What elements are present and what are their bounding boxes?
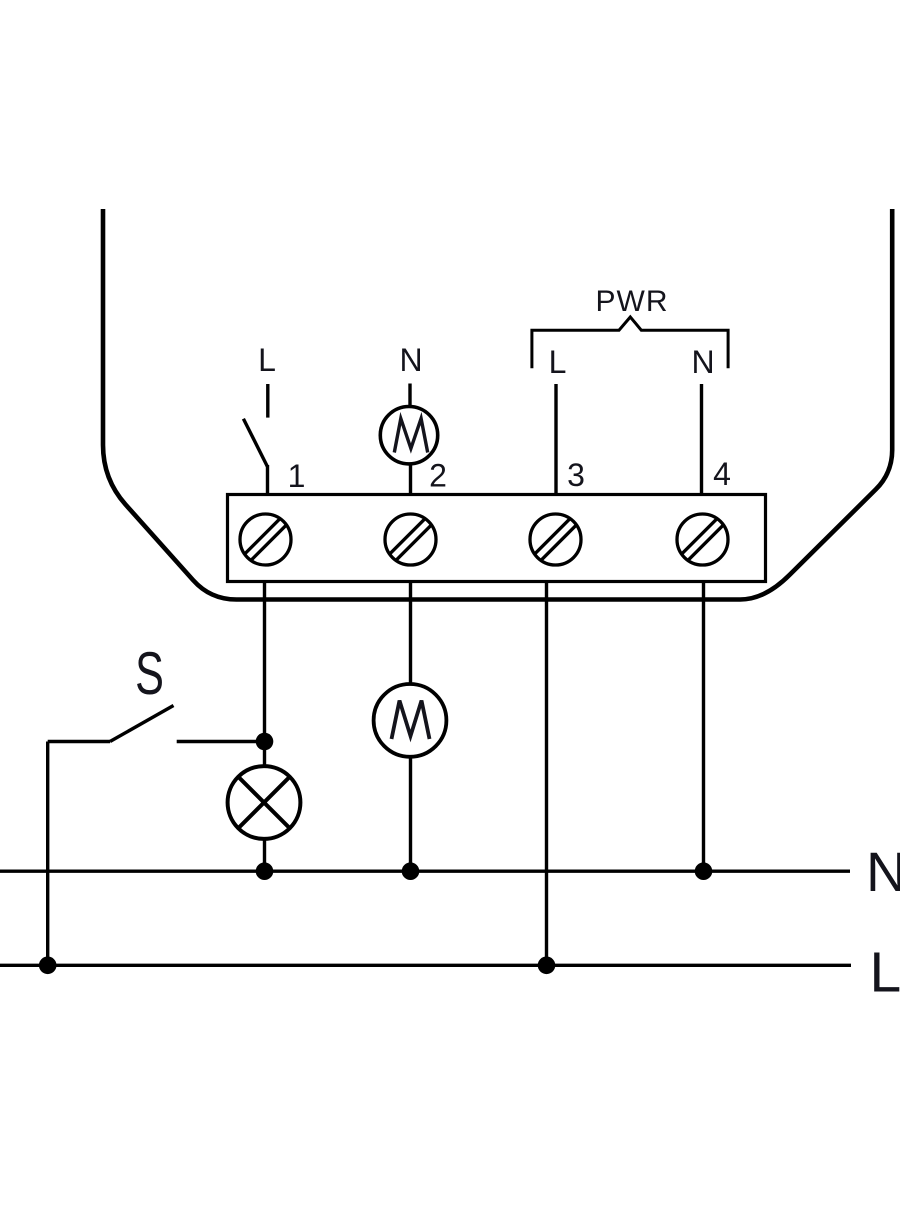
wire blade to terminal 1 <box>266 465 269 495</box>
switch contact stub from L <box>266 384 269 418</box>
terminal screw 4 <box>677 514 728 565</box>
svg-text:L: L <box>870 941 900 1005</box>
terminal screw 1 <box>240 514 291 565</box>
wire terminal 2 down to motor M2 <box>409 582 412 685</box>
svg-text:4: 4 <box>713 456 731 492</box>
motor M2 circle <box>374 684 447 757</box>
motor M1 circle <box>380 407 437 464</box>
motor M2 letter M <box>392 701 430 740</box>
terminal screw 2 <box>385 514 436 565</box>
wire lamp to N line <box>263 839 266 871</box>
switch S left lead <box>48 740 110 743</box>
svg-text:L: L <box>258 342 276 378</box>
wire terminal 1 down <box>263 582 266 743</box>
switch S blade <box>110 706 174 742</box>
device enclosure outline <box>103 209 892 600</box>
PWR bracket <box>532 317 728 368</box>
node wire 3 on L line <box>538 957 556 975</box>
node lamp on N line <box>256 862 274 880</box>
svg-text:N: N <box>399 342 422 378</box>
N bus line <box>0 870 850 873</box>
svg-text:S: S <box>135 641 164 708</box>
wire N to motor M1 <box>408 384 411 408</box>
wire N PWR to terminal 4 <box>700 384 703 495</box>
lamp circle <box>228 766 301 839</box>
terminal screw 3 <box>530 514 581 565</box>
wire L PWR to terminal 3 <box>554 384 557 495</box>
internal switch blade <box>243 419 267 467</box>
node motor M2 on N line <box>402 862 420 880</box>
wire terminal 4 down to N line <box>702 582 705 872</box>
wire motor M2 to N line <box>409 757 412 871</box>
switch S right lead <box>177 740 265 743</box>
node junction switch/lamp <box>256 733 274 751</box>
svg-text:3: 3 <box>567 457 585 493</box>
svg-text:N: N <box>866 840 900 903</box>
node wire 4 on N line <box>695 862 713 880</box>
wire junction to lamp <box>263 742 266 768</box>
svg-text:L: L <box>549 344 567 380</box>
node S on L line <box>39 957 57 975</box>
svg-text:N: N <box>691 344 714 380</box>
wire motor M1 to terminal 2 <box>409 464 412 495</box>
L bus line <box>0 964 851 967</box>
wire terminal 3 down to L line <box>545 582 548 966</box>
lamp X cross <box>238 777 289 828</box>
wire S down to L line <box>46 742 49 966</box>
svg-text:1: 1 <box>288 458 306 494</box>
motor M1 letter M <box>394 419 427 453</box>
terminal block <box>228 495 766 582</box>
svg-text:PWR: PWR <box>596 285 669 318</box>
svg-text:2: 2 <box>429 458 447 494</box>
